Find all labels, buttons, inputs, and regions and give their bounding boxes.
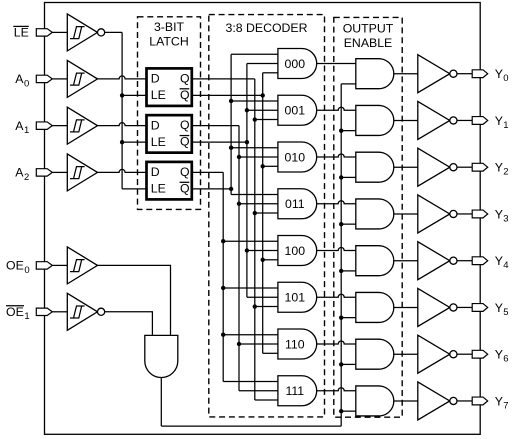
- svg-text:5: 5: [503, 307, 508, 318]
- pin LE: [36, 29, 52, 36]
- enable vertical line: [340, 84, 342, 426]
- wire OE1 pin to buffer: [52, 311, 67, 313]
- wire gate A1 stub row 5: [247, 296, 278, 298]
- wire decoder 001 output to OE gate (hop over enable line): [317, 107, 356, 110]
- wire gate 111 A2 stub: [223, 380, 278, 382]
- junction Q2 tap: [221, 333, 225, 337]
- output-enable AND gate row 1: [356, 105, 394, 135]
- svg-text:A: A: [15, 166, 24, 180]
- wire decoder 110 output to OE gate (hop over enable line): [317, 341, 356, 344]
- svg-text:2: 2: [503, 167, 508, 178]
- wire enable stub to OE gate 3: [341, 223, 356, 225]
- wire A1 buffer to latch D (hop over LE line): [98, 123, 147, 126]
- svg-text:101: 101: [285, 291, 306, 305]
- svg-text:000: 000: [285, 57, 306, 71]
- wire latch3 Qbar output: [192, 188, 231, 190]
- junction Q1 tap: [237, 342, 241, 346]
- wire gate A0 stub row 4: [263, 259, 278, 261]
- wire decoder 111 output to OE gate (hop over enable line): [317, 388, 356, 391]
- output-enable AND gate row 4: [356, 246, 394, 276]
- bus line Q1: [238, 126, 240, 391]
- pin Y6: [472, 350, 488, 358]
- output inverter Y2: [418, 148, 457, 186]
- wire latch1 Qbar output: [192, 94, 263, 96]
- junction enable line row 2: [339, 175, 343, 179]
- wire decoder 101 output to OE gate (hop over enable line): [317, 294, 356, 297]
- latch 2 box: [147, 115, 192, 152]
- pin A2: [36, 169, 52, 176]
- wire gate A1 stub row 1: [247, 109, 278, 111]
- output inverter Y5: [418, 288, 457, 326]
- svg-text:6: 6: [503, 354, 508, 365]
- junction enable line row 3: [339, 222, 343, 226]
- decoder AND gate 101: [278, 282, 317, 312]
- wire gate A1 stub row 0: [247, 63, 278, 65]
- svg-text:Y: Y: [495, 161, 503, 175]
- svg-text:LE: LE: [151, 182, 166, 196]
- decoder AND gate 010: [278, 142, 317, 172]
- wire enable stub to OE gate 0: [341, 83, 356, 85]
- wire inverter to Y2 pin: [457, 166, 472, 168]
- schmitt buffer OE0: [67, 247, 97, 284]
- svg-text:D: D: [151, 165, 160, 179]
- wire gate A1 stub row 6: [239, 343, 278, 345]
- svg-text:4: 4: [503, 260, 508, 271]
- svg-text:A: A: [15, 72, 24, 86]
- schmitt buffer A2: [67, 154, 97, 191]
- LE vertical line: [121, 32, 123, 189]
- 3:8 DECODER dashed box: [209, 15, 325, 417]
- wire OE gate 1 to inverter: [394, 119, 418, 121]
- junction Q2 tap: [221, 239, 225, 243]
- junction QB0 tap: [261, 164, 265, 168]
- wire OE gate 0 to inverter: [394, 73, 418, 75]
- junction enable line row 1: [339, 128, 343, 132]
- wire OE1 inverter to enable AND: [105, 312, 153, 336]
- svg-text:OE: OE: [6, 305, 24, 319]
- junction Q1bar source: [245, 140, 249, 144]
- wire inverter to Y6 pin: [457, 353, 472, 355]
- wire gate A0 stub row 3: [255, 212, 278, 214]
- schmitt inverter OE1: [67, 293, 104, 330]
- wire A2 buffer to latch D (hop over LE line): [98, 169, 147, 172]
- decoder AND gate 001: [278, 95, 317, 125]
- output-enable AND gate row 0: [356, 59, 394, 89]
- wire OE gate 7 to inverter: [394, 400, 418, 402]
- bus line Q2bar: [230, 54, 232, 194]
- wire enable stub to OE gate 6: [341, 363, 356, 365]
- wire OE gate 5 to inverter: [394, 306, 418, 308]
- wire A2 pin to buffer: [52, 171, 67, 173]
- wire enable stub to OE gate 1: [341, 130, 356, 132]
- wire enable stub to OE gate 7: [341, 410, 356, 412]
- svg-text:D: D: [151, 72, 160, 86]
- svg-text:3-BIT: 3-BIT: [154, 20, 185, 34]
- svg-text:1: 1: [503, 120, 508, 131]
- svg-text:A: A: [15, 119, 24, 133]
- pin A0: [36, 75, 52, 82]
- wire OE gate 3 to inverter: [394, 213, 418, 215]
- wire latch3 Q output: [192, 171, 223, 173]
- junction QB2 tap: [229, 99, 233, 103]
- junction Q0 tap: [253, 117, 257, 121]
- wire gate A0 stub row 1: [255, 119, 278, 121]
- output-enable AND gate row 5: [356, 292, 394, 322]
- output-enable AND gate row 6: [356, 339, 394, 369]
- decoder AND gate 100: [278, 236, 317, 266]
- pin A1: [36, 122, 52, 129]
- wire LE to latch1 LE input: [122, 94, 146, 96]
- junction QB2 tap: [229, 146, 233, 150]
- wire enable stub to OE gate 5: [341, 317, 356, 319]
- output inverter Y7: [418, 382, 457, 420]
- wire OE gate 2 to inverter: [394, 166, 418, 168]
- wire A0 buffer to latch D (hop over LE line): [98, 76, 147, 79]
- pin Y1: [472, 117, 488, 125]
- svg-text:111: 111: [285, 384, 304, 398]
- wire latch2 Qbar output: [192, 141, 247, 143]
- svg-text:Q: Q: [180, 71, 190, 85]
- svg-text:0: 0: [24, 265, 29, 276]
- svg-text:1: 1: [24, 311, 29, 322]
- wire gate A1 stub row 3: [239, 203, 278, 205]
- output-enable AND gate row 3: [356, 199, 394, 229]
- output inverter Y1: [418, 101, 457, 139]
- svg-text:OUTPUT: OUTPUT: [343, 21, 394, 35]
- output-enable AND gate row 2: [356, 152, 394, 182]
- pin Y5: [472, 304, 488, 312]
- pin OE1: [36, 308, 52, 315]
- schmitt inverter LE: [67, 14, 104, 51]
- wire latch2 Q output: [192, 125, 239, 127]
- wire gate A1 stub row 7: [239, 390, 278, 392]
- junction enable line row 6: [339, 362, 343, 366]
- svg-text:ENABLE: ENABLE: [344, 36, 393, 50]
- junction enable line row 4: [339, 269, 343, 273]
- wire gate A1 stub row 2: [239, 156, 278, 158]
- svg-text:Q: Q: [180, 118, 190, 132]
- pin OE0: [36, 262, 52, 269]
- junction enable line row 7: [339, 409, 343, 413]
- pin Y0: [472, 70, 488, 78]
- output-enable AND gate row 7: [356, 386, 394, 416]
- junction QB0 tap: [261, 258, 265, 262]
- svg-text:Y: Y: [495, 207, 503, 221]
- svg-text:Y: Y: [495, 394, 503, 408]
- wire decoder 100 output to OE gate (hop over enable line): [317, 248, 356, 251]
- wire decoder 000 output to OE gate: [317, 63, 356, 65]
- svg-text:Q: Q: [180, 88, 190, 102]
- wire inverter to Y4 pin: [457, 260, 472, 262]
- svg-text:Y: Y: [495, 254, 503, 268]
- decoder AND gate 011: [278, 189, 317, 219]
- bus line Q2: [222, 172, 224, 381]
- svg-text:D: D: [151, 118, 160, 132]
- wire gate A0 stub row 7: [255, 399, 278, 401]
- wire gate 100 A2 stub: [223, 240, 278, 242]
- junction Q1 tap: [237, 202, 241, 206]
- output inverter Y6: [418, 335, 457, 373]
- wire inverter to Y7 pin: [457, 400, 472, 402]
- svg-text:0: 0: [503, 73, 508, 84]
- latch 1 box: [147, 68, 192, 106]
- junction Q2bar source: [229, 187, 233, 191]
- output inverter Y3: [418, 195, 457, 233]
- junction enable line row 5: [339, 315, 343, 319]
- wire inverter to Y5 pin: [457, 306, 472, 308]
- wire decoder 011 output to OE gate (hop over enable line): [317, 201, 356, 204]
- svg-text:OE: OE: [6, 259, 24, 273]
- svg-text:010: 010: [285, 150, 306, 164]
- svg-text:3:8 DECODER: 3:8 DECODER: [225, 21, 307, 35]
- wire inverter to Y3 pin: [457, 213, 472, 215]
- wire A1 pin to buffer: [52, 125, 67, 127]
- svg-text:LE: LE: [14, 26, 29, 40]
- wire OE0 buffer to enable AND: [98, 265, 171, 335]
- wire OE gate 6 to inverter: [394, 353, 418, 355]
- junction Q0 tap: [253, 304, 257, 308]
- wire A0 pin to buffer: [52, 78, 67, 80]
- svg-text:110: 110: [285, 337, 305, 351]
- decoder AND gate 000: [278, 49, 317, 79]
- svg-text:Y: Y: [495, 67, 503, 81]
- wire LE pin to buffer: [52, 31, 67, 33]
- junction QB1 tap: [245, 108, 249, 112]
- schmitt buffer A0: [67, 60, 97, 97]
- svg-text:2: 2: [24, 172, 29, 183]
- junction Q0bar source: [261, 93, 265, 97]
- svg-text:100: 100: [285, 244, 306, 258]
- svg-text:1: 1: [24, 125, 29, 136]
- output inverter Y0: [418, 55, 457, 93]
- output inverter Y4: [418, 242, 457, 280]
- bus line Q0: [254, 79, 256, 400]
- svg-text:3: 3: [503, 213, 508, 224]
- wire gate A0 stub row 5: [255, 306, 278, 308]
- wire gate 101 A2 stub: [223, 287, 278, 289]
- wire OE0 pin to buffer: [52, 264, 67, 266]
- svg-text:Q: Q: [180, 135, 190, 149]
- wire enable stub to OE gate 2: [341, 176, 356, 178]
- wire enable AND output: [160, 378, 162, 427]
- svg-text:011: 011: [285, 197, 305, 211]
- junction QB1 tap: [245, 248, 249, 252]
- decoder AND gate 110: [278, 329, 317, 359]
- OUTPUT ENABLE dashed box: [334, 17, 402, 417]
- bus line Q1bar: [246, 64, 248, 298]
- wire gate 010 A2 stub: [231, 147, 278, 149]
- junction Q1 tap: [237, 155, 241, 159]
- wire inverter to Y1 pin: [457, 119, 472, 121]
- latch 3 box: [147, 162, 192, 200]
- wire gate A0 stub row 0: [263, 72, 278, 74]
- junction Q2 tap: [221, 286, 225, 290]
- decoder AND gate 111: [278, 376, 317, 406]
- pin Y7: [472, 397, 488, 405]
- wire enable stub to OE gate 4: [341, 270, 356, 272]
- svg-text:Y: Y: [495, 348, 503, 362]
- wire gate A0 stub row 2: [263, 165, 278, 167]
- schmitt buffer A1: [67, 107, 97, 144]
- svg-text:LATCH: LATCH: [149, 35, 188, 49]
- svg-text:LE: LE: [151, 88, 166, 102]
- wire gate 011 A2 stub: [231, 193, 278, 195]
- svg-text:Y: Y: [495, 114, 503, 128]
- wire LE inverter to LE line: [105, 31, 122, 33]
- wire OE gate 4 to inverter: [394, 260, 418, 262]
- wire LE to latch3 LE input: [122, 188, 146, 190]
- junction LE line latch2: [120, 140, 124, 144]
- svg-text:Y: Y: [495, 301, 503, 315]
- svg-text:LE: LE: [151, 135, 166, 149]
- svg-text:Q: Q: [180, 181, 190, 195]
- wire gate 001 A2 stub: [231, 100, 278, 102]
- wire decoder 010 output to OE gate (hop over enable line): [317, 154, 356, 157]
- svg-text:7: 7: [503, 400, 508, 411]
- pin Y4: [472, 257, 488, 265]
- wire inverter to Y0 pin: [457, 73, 472, 75]
- svg-text:0: 0: [24, 78, 29, 89]
- pin Y3: [472, 210, 488, 218]
- bus line Q0bar: [262, 73, 264, 354]
- wire LE to latch2 LE input: [122, 141, 146, 143]
- svg-text:Q: Q: [180, 165, 190, 179]
- wire gate A0 stub row 6: [263, 352, 278, 354]
- 3-BIT LATCH dashed box: [138, 17, 201, 210]
- wire gate 000 A2 stub: [231, 53, 278, 55]
- enable bottom wire: [161, 425, 341, 427]
- wire gate A1 stub row 4: [247, 250, 278, 252]
- wire latch1 Q output: [192, 78, 255, 80]
- pin Y2: [472, 163, 488, 171]
- wire gate 110 A2 stub: [223, 334, 278, 336]
- enable AND gate: [145, 335, 178, 377]
- svg-text:001: 001: [285, 104, 306, 118]
- junction LE line latch1: [120, 93, 124, 97]
- junction Q0 tap: [253, 211, 257, 215]
